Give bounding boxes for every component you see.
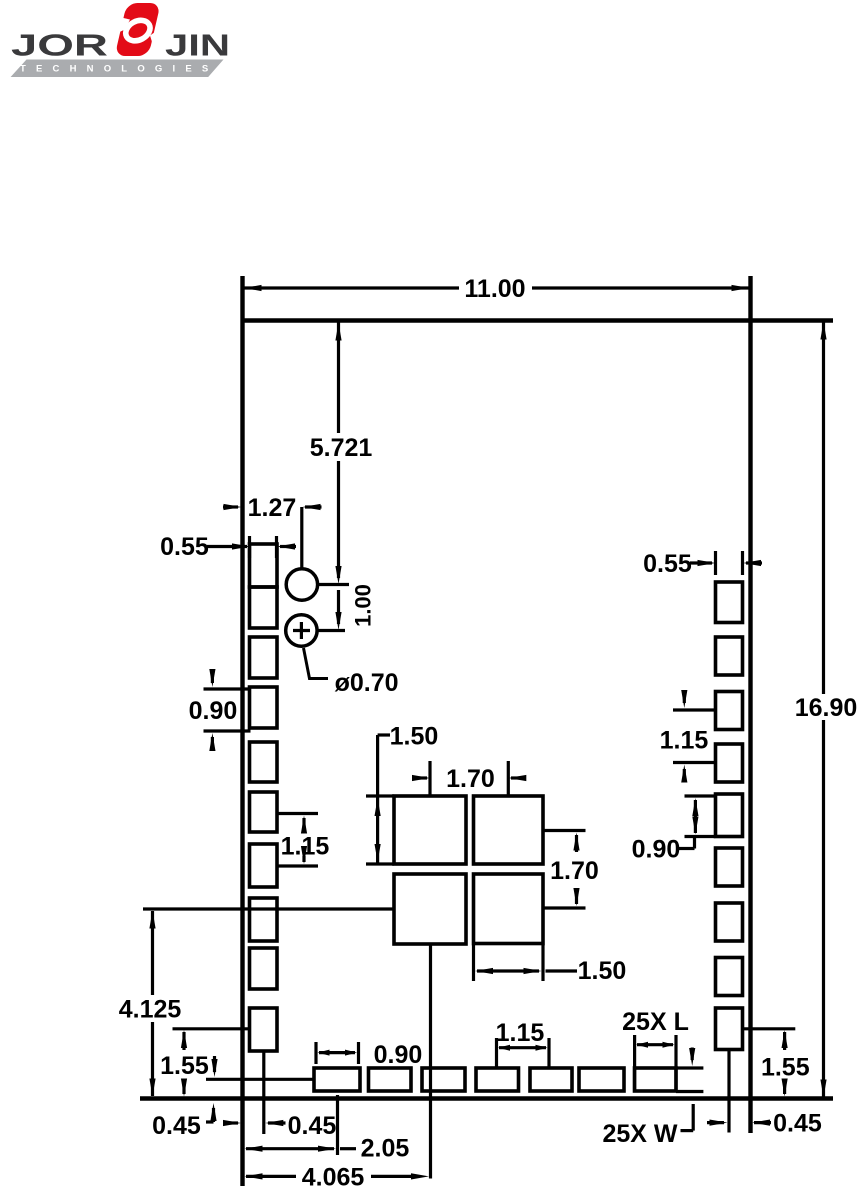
left pad 6 bbox=[250, 792, 278, 832]
svg-text:ø0.70: ø0.70 bbox=[335, 669, 399, 697]
bottom pad 7 bbox=[635, 1068, 677, 1091]
dim 0.45 L1 arrows bbox=[213, 1056, 216, 1072]
Jorjin logo bbox=[0, 0, 240, 92]
circle centerline vertical bbox=[300, 507, 303, 568]
svg-text:25X W: 25X W bbox=[602, 1120, 677, 1148]
svg-text:1.15: 1.15 bbox=[281, 833, 330, 861]
logo word JOR bbox=[11, 29, 230, 63]
dim 1.70 right arrows bbox=[573, 833, 579, 851]
dim 1.00 line bbox=[337, 590, 340, 624]
bottom pad 3 bbox=[422, 1068, 465, 1091]
dim 25X L line bbox=[637, 1043, 673, 1046]
svg-text:2.05: 2.05 bbox=[361, 1135, 410, 1163]
right pad 9 bbox=[716, 1008, 743, 1050]
svg-text:0.90: 0.90 bbox=[374, 1041, 423, 1069]
center pad bottom-left centerline bbox=[429, 944, 432, 1179]
dim 1.50 top-left stubs bbox=[366, 794, 394, 797]
leader dia 0.70 bbox=[304, 648, 329, 679]
right pad 5 bbox=[716, 794, 743, 837]
dim 1.55 left stub (pad center) bbox=[173, 1027, 250, 1030]
dim 0.45 L2 arrows bbox=[224, 1121, 239, 1124]
svg-text:4.065: 4.065 bbox=[302, 1164, 365, 1192]
svg-text:1.50: 1.50 bbox=[578, 957, 627, 985]
svg-text:1.00: 1.00 bbox=[351, 584, 376, 627]
svg-text:25X L: 25X L bbox=[622, 1008, 689, 1036]
circle 2 (hole with cross) bbox=[286, 615, 317, 646]
svg-text:0.45: 0.45 bbox=[288, 1112, 337, 1140]
svg-text:1.15: 1.15 bbox=[496, 1019, 545, 1047]
dim 25X W stubs bbox=[676, 1066, 703, 1069]
circle 1 center stub bbox=[318, 583, 349, 586]
dim 25X W arrows bbox=[691, 1048, 694, 1061]
dim 4.065 line bbox=[246, 1175, 296, 1178]
svg-text:0.90: 0.90 bbox=[189, 697, 238, 725]
svg-text:1.50: 1.50 bbox=[390, 723, 439, 751]
dim 0.90 left arrows bbox=[211, 671, 214, 683]
dim 25X L ticks bbox=[633, 1035, 636, 1091]
bottom pad 2 bbox=[369, 1068, 412, 1091]
dim 1.70 right stubs bbox=[544, 829, 586, 832]
dim 1.70 top ticks bbox=[428, 761, 431, 796]
svg-text:1.15: 1.15 bbox=[660, 727, 709, 755]
svg-text:1.70: 1.70 bbox=[550, 857, 599, 885]
dim 0.55 left line and ticks bbox=[207, 545, 247, 548]
svg-text:0.90: 0.90 bbox=[632, 836, 681, 864]
svg-text:1.70: 1.70 bbox=[446, 765, 495, 793]
center pad bottom-left bbox=[394, 874, 466, 944]
circle 2 center stub bbox=[317, 629, 345, 632]
svg-text:0.45: 0.45 bbox=[152, 1112, 201, 1140]
module outline top edge bbox=[241, 318, 834, 322]
svg-text:4.125: 4.125 bbox=[119, 996, 182, 1024]
right pad 2 bbox=[716, 637, 743, 675]
left pad 3 bbox=[250, 637, 278, 678]
right corner pad centerline bbox=[727, 1050, 730, 1133]
dim 1.50 bottom line bbox=[477, 969, 539, 972]
circle 1 (plain hole) bbox=[286, 569, 317, 600]
extension line 4.125 top bbox=[143, 907, 394, 910]
svg-text:1.27: 1.27 bbox=[248, 494, 297, 522]
right pad 1 bbox=[716, 582, 743, 623]
logo red e glyph bbox=[115, 3, 162, 56]
dim 5.721 line bbox=[337, 321, 340, 434]
left pad 9 bbox=[250, 948, 278, 989]
dim 0.55 right line and ticks bbox=[690, 561, 712, 564]
right pad 7 bbox=[716, 903, 743, 941]
bottom pad 1 bbox=[314, 1068, 360, 1091]
dim 4.125 line bbox=[151, 911, 154, 995]
dim 11.00 line bbox=[243, 286, 460, 289]
bottom pads centerline extension left bbox=[206, 1078, 314, 1081]
right pad 4 bbox=[716, 744, 743, 782]
module outline bottom edge bbox=[140, 1096, 833, 1100]
dim 0.90 bottom line bbox=[319, 1051, 355, 1054]
dim 1.55 right stub bbox=[741, 1027, 795, 1030]
left pad 7 bbox=[250, 844, 278, 887]
bottom pad 6 bbox=[579, 1068, 624, 1091]
left pad 1 bbox=[250, 544, 278, 587]
dim 1.15 bottom ticks bbox=[495, 1038, 498, 1067]
center pad top-right bbox=[474, 796, 544, 864]
bottom pad 4 bbox=[476, 1068, 519, 1091]
svg-text:0.55: 0.55 bbox=[160, 533, 209, 561]
left pad 5 bbox=[250, 742, 278, 782]
svg-text:1.55: 1.55 bbox=[160, 1052, 209, 1080]
dim 1.15 bottom line bbox=[499, 1046, 546, 1049]
left pad 4 bbox=[250, 687, 278, 728]
svg-text:11.00: 11.00 bbox=[464, 275, 525, 303]
right pad 3 bbox=[716, 692, 743, 730]
dim 0.90 right leader bbox=[679, 847, 695, 850]
dim 1.15 left arrows bbox=[301, 816, 307, 834]
dim 0.90 right line bbox=[692, 798, 698, 816]
bottom pad 1 centerline bbox=[336, 1095, 339, 1155]
dim 1.50 bottom ticks bbox=[472, 945, 475, 981]
dim 2.05 line bbox=[246, 1147, 334, 1150]
dim 16.90 line bbox=[822, 321, 825, 695]
center pad top-left bbox=[394, 796, 466, 864]
dim 1.55 left arrows bbox=[181, 1030, 187, 1048]
center pad bottom-right bbox=[474, 874, 544, 944]
dim 0.90 left stubs bbox=[204, 687, 251, 690]
dim 1.27 left arrow bbox=[223, 505, 238, 508]
dim 1.55 right arrows bbox=[782, 1030, 788, 1048]
dim 1.15 left stubs bbox=[277, 812, 319, 815]
left pad 10 bbox=[250, 1008, 278, 1051]
logo banner strip TECHNOLOGIES bbox=[11, 60, 224, 78]
left pad 2 bbox=[250, 587, 278, 628]
right pad 6 bbox=[716, 848, 743, 886]
dim 0.90 right stubs bbox=[685, 794, 716, 797]
svg-text:0.55: 0.55 bbox=[643, 550, 692, 578]
svg-text:0.45: 0.45 bbox=[773, 1110, 822, 1138]
svg-text:5.721: 5.721 bbox=[310, 434, 373, 462]
dim 1.27 right arrow bbox=[303, 504, 321, 510]
dim 0.45 right arrows bbox=[707, 1121, 724, 1124]
dim 25X W leader bbox=[692, 1104, 695, 1131]
bottom pad 5 bbox=[530, 1068, 572, 1091]
right pad 8 bbox=[716, 958, 743, 996]
dim 1.70 top arrows bbox=[412, 776, 427, 779]
dim 1.50 top-left leader and line bbox=[378, 733, 390, 736]
dim 0.45 L1 leader bbox=[206, 1120, 214, 1123]
left corner pad centerline bbox=[262, 1051, 265, 1134]
module outline left edge bbox=[240, 276, 244, 1186]
dim 1.15 right stubs bbox=[673, 708, 716, 711]
dim 1.15 right arrows bbox=[683, 692, 686, 704]
svg-text:16.90: 16.90 bbox=[795, 694, 858, 722]
module outline right edge bbox=[748, 276, 752, 1133]
svg-text:1.55: 1.55 bbox=[761, 1054, 810, 1082]
dim 0.90 bottom ticks bbox=[314, 1042, 317, 1064]
left pad 8 bbox=[250, 898, 278, 941]
